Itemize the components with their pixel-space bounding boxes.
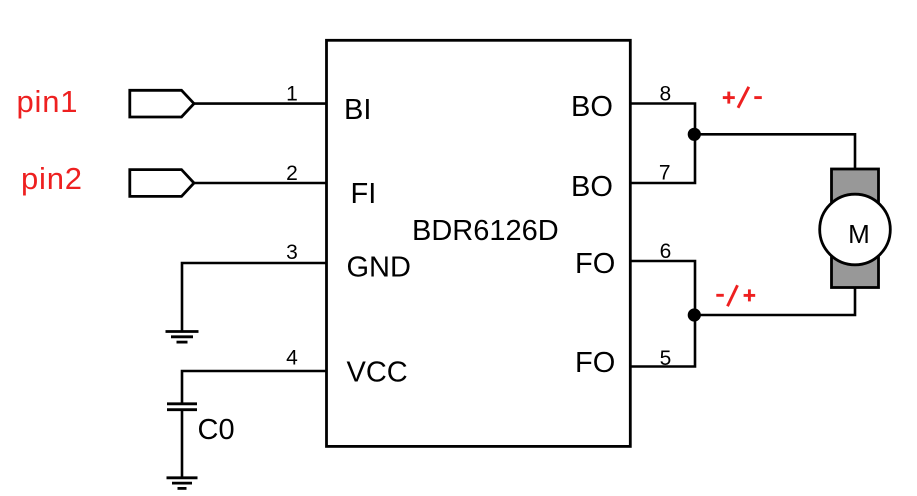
capacitor C0 (167, 404, 197, 410)
wire node to motor bottom (694, 287, 855, 315)
svg-text:BO: BO (571, 91, 613, 123)
port flag pin1 (130, 90, 194, 117)
svg-text:3: 3 (286, 241, 298, 264)
svg-text:1: 1 (286, 83, 298, 106)
svg-text:7: 7 (659, 162, 671, 185)
wire pin2 to FI (194, 182, 327, 185)
wire pin1 to BI (194, 102, 327, 105)
svg-text:VCC: VCC (347, 356, 408, 388)
ground symbol 2 (167, 478, 198, 489)
svg-text:FO: FO (575, 347, 615, 379)
net label plus-minus (723, 87, 762, 108)
wire FO pin6 to node (630, 261, 695, 367)
svg-text:FO: FO (575, 248, 615, 280)
ground symbol 1 (166, 332, 199, 343)
svg-text:BO: BO (571, 171, 613, 203)
svg-text:M: M (848, 219, 870, 249)
svg-text:6: 6 (660, 240, 672, 263)
svg-text:pin1: pin1 (17, 84, 79, 119)
IC U1 body BDR6126D (327, 40, 631, 446)
svg-text:pin2: pin2 (21, 161, 83, 196)
svg-text:5: 5 (660, 347, 672, 370)
wire C0 to ground (181, 411, 184, 477)
svg-text:BI: BI (344, 94, 371, 126)
motor M1 brush block (832, 169, 879, 288)
svg-text:2: 2 (286, 162, 298, 185)
wire BO pin8 to node (630, 104, 695, 184)
wire VCC pin4 (182, 371, 327, 403)
svg-text:GND: GND (347, 251, 411, 283)
svg-text:4: 4 (286, 347, 298, 370)
motor M1 body circle (820, 194, 891, 265)
svg-text:FI: FI (351, 178, 377, 210)
junction node minus (688, 308, 701, 321)
junction node plus (688, 128, 701, 141)
svg-text:BDR6126D: BDR6126D (412, 215, 559, 247)
port flag pin2 (130, 170, 194, 197)
net label minus-plus (716, 285, 755, 306)
svg-text:8: 8 (659, 83, 671, 106)
svg-text:C0: C0 (198, 414, 235, 446)
wire node to motor top (694, 134, 855, 170)
wire GND pin3 (182, 263, 327, 331)
